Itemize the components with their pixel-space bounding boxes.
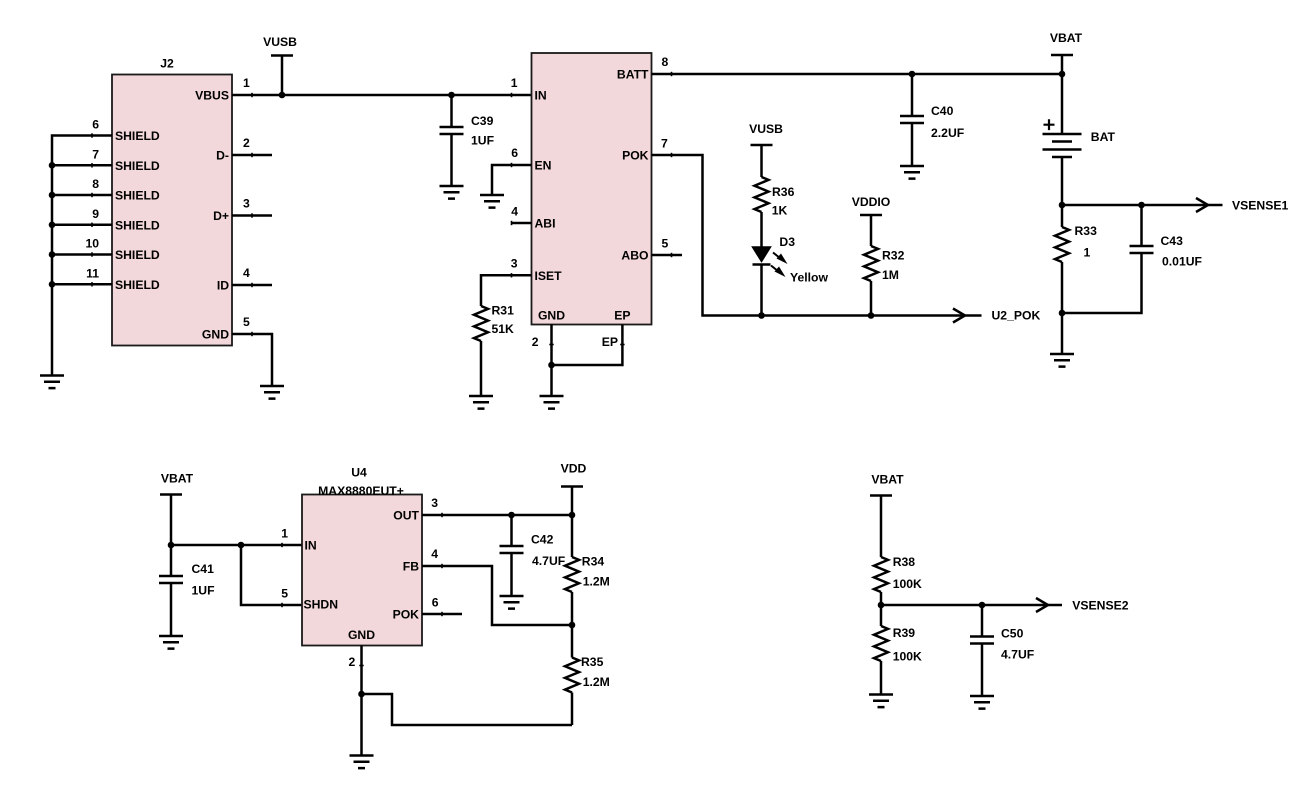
svg-text:BAT: BAT (1091, 130, 1116, 144)
svg-text:R38: R38 (893, 555, 916, 569)
svg-text:1: 1 (511, 76, 518, 90)
capacitor C43 (1062, 205, 1202, 313)
IC U2 body (532, 53, 652, 325)
svg-text:POK: POK (622, 149, 649, 163)
node FB divider junction (569, 622, 576, 629)
svg-text:VDDIO: VDDIO (852, 195, 891, 209)
svg-text:VDD: VDD (561, 462, 587, 476)
power VBAT at U4 (160, 472, 194, 577)
svg-text:10: 10 (85, 237, 99, 251)
pin 2 D- (216, 136, 272, 163)
svg-text:VSENSE1: VSENSE1 (1232, 198, 1288, 212)
pin 4 FB of U4 (403, 547, 439, 574)
svg-text:4.7UF: 4.7UF (1001, 648, 1034, 662)
wire to ground VSENSE1 (1061, 313, 1064, 354)
LED arrows (771, 253, 788, 278)
svg-text:VUSB: VUSB (263, 35, 297, 49)
svg-text:MAX8880EUT+: MAX8880EUT+ (318, 484, 404, 498)
ground at U4 GND (350, 756, 374, 769)
svg-text:D3: D3 (779, 235, 795, 249)
ground at C40 (900, 166, 924, 179)
pin 6 SHIELD (92, 118, 160, 144)
capacitor C41 (159, 562, 215, 636)
ground at EN (480, 195, 504, 208)
svg-text:U2_POK: U2_POK (992, 309, 1041, 323)
wire VBUS net (232, 94, 532, 97)
svg-text:C42: C42 (531, 533, 554, 547)
wire OUT to VDD (422, 514, 572, 517)
resistor R35 (565, 625, 610, 725)
svg-text:C40: C40 (931, 104, 954, 118)
svg-text:ID: ID (217, 279, 229, 293)
svg-text:VBAT: VBAT (161, 472, 194, 486)
svg-text:100K: 100K (893, 577, 922, 591)
pin 10 SHIELD (52, 237, 160, 263)
svg-text:R31: R31 (492, 304, 515, 318)
svg-text:1UF: 1UF (192, 584, 215, 598)
svg-text:4: 4 (511, 205, 518, 219)
svg-text:8: 8 (92, 177, 99, 191)
svg-text:IN: IN (305, 539, 317, 553)
svg-text:100K: 100K (893, 650, 922, 664)
power VUSB (263, 35, 297, 95)
pin 5 SHDN of U4 (281, 587, 338, 612)
svg-text:VSENSE2: VSENSE2 (1072, 599, 1128, 613)
wire shield bus (52, 136, 112, 376)
svg-text:2: 2 (243, 136, 250, 150)
pin 7 POK (622, 137, 668, 163)
resistor R36 (755, 177, 795, 247)
svg-text:R36: R36 (772, 185, 795, 199)
node R32 junction (868, 312, 875, 319)
svg-text:OUT: OUT (393, 509, 419, 523)
node VDD junction (569, 512, 576, 519)
pin 1 VBUS label (195, 76, 250, 103)
svg-text:C41: C41 (192, 562, 215, 576)
svg-text:VBAT: VBAT (871, 473, 904, 487)
svg-text:Yellow: Yellow (790, 270, 828, 284)
ground at C50 (970, 696, 994, 709)
wire SHDN branch (241, 545, 302, 605)
pin 4 ABI (511, 205, 555, 231)
svg-text:R32: R32 (882, 249, 905, 263)
svg-text:R34: R34 (582, 555, 605, 569)
resistor R38 (874, 555, 922, 605)
svg-text:C39: C39 (471, 114, 494, 128)
svg-text:4.7UF: 4.7UF (532, 554, 565, 568)
ground at R31 (469, 396, 493, 409)
wire VBAT to IN (171, 544, 302, 547)
ground at U2 GND (540, 396, 564, 409)
wire POK to U2_POK (652, 155, 982, 316)
svg-text:5: 5 (281, 587, 288, 601)
svg-text:8: 8 (662, 55, 669, 69)
power VUSB at R36 (749, 122, 783, 177)
svg-text:2: 2 (532, 335, 539, 349)
resistor R33 (1055, 205, 1097, 313)
svg-text:6: 6 (92, 118, 99, 132)
svg-text:BATT: BATT (617, 68, 649, 82)
svg-text:SHIELD: SHIELD (115, 278, 160, 292)
pin EP of U2 (552, 309, 631, 366)
capacitor C42 (500, 515, 566, 596)
connector J2 (112, 57, 232, 346)
wire VSENSE1 net (1062, 204, 1223, 207)
svg-text:1M: 1M (882, 268, 899, 282)
svg-text:D-: D- (216, 149, 229, 163)
svg-text:1.2M: 1.2M (583, 575, 610, 589)
svg-text:EN: EN (535, 159, 552, 173)
pin 1 IN (511, 76, 547, 103)
svg-text:5: 5 (662, 237, 669, 251)
svg-text:1UF: 1UF (471, 134, 494, 148)
wire BATT net (652, 73, 1063, 76)
svg-text:GND: GND (202, 328, 229, 342)
ground at C42 (500, 596, 524, 609)
node C42 junction (508, 512, 515, 519)
node VSENSE2 junction (878, 602, 885, 609)
svg-text:C50: C50 (1001, 627, 1024, 641)
arrow VSENSE2 (1036, 598, 1048, 612)
svg-text:SHIELD: SHIELD (115, 129, 160, 143)
svg-text:7: 7 (92, 147, 99, 161)
svg-text:ISET: ISET (535, 269, 563, 283)
svg-text:2: 2 (349, 655, 356, 669)
pin 5 ABO (621, 237, 682, 263)
pin 9 SHIELD (52, 207, 160, 233)
power VDDIO (852, 195, 891, 246)
resistor R31 (474, 304, 514, 397)
svg-text:J2: J2 (160, 57, 174, 71)
arrow VSENSE1 (1196, 198, 1208, 212)
svg-text:1: 1 (243, 76, 250, 90)
wire FB to divider (422, 566, 572, 625)
pin end ticks (92, 72, 672, 666)
svg-text:VBUS: VBUS (195, 89, 229, 103)
pin 5 GND (202, 315, 272, 386)
svg-text:VUSB: VUSB (749, 122, 783, 136)
node SHDN branch junction (238, 542, 245, 549)
power VBAT top (1050, 31, 1083, 77)
ground at R39 (869, 695, 893, 708)
node battery bottom junction (1059, 202, 1066, 209)
svg-text:SHDN: SHDN (304, 598, 339, 612)
svg-text:ABI: ABI (535, 217, 556, 231)
power VBAT at divider (870, 473, 904, 558)
svg-text:GND: GND (538, 309, 565, 323)
svg-text:2.2UF: 2.2UF (931, 126, 964, 140)
pin 11 SHIELD (52, 266, 160, 292)
ground at C41 (159, 636, 183, 649)
svg-text:1: 1 (1084, 246, 1091, 260)
svg-text:R35: R35 (581, 655, 604, 669)
svg-text:7: 7 (661, 137, 668, 151)
pin 8 SHIELD (52, 177, 160, 203)
svg-text:FB: FB (403, 560, 419, 574)
resistor R32 (864, 246, 905, 316)
svg-text:POK: POK (393, 608, 420, 622)
node C43 top junction (1138, 202, 1145, 209)
capacitor C39 (440, 92, 495, 186)
svg-text:1K: 1K (772, 204, 788, 218)
svg-text:GND: GND (348, 628, 375, 642)
pin 2 GND of U2 (532, 309, 566, 397)
pin 3 OUT of U4 (393, 496, 438, 523)
svg-text:6: 6 (511, 146, 518, 160)
svg-text:11: 11 (86, 266, 99, 280)
svg-text:SHIELD: SHIELD (115, 159, 160, 173)
svg-text:9: 9 (92, 207, 99, 221)
capacitor C40 (900, 71, 964, 166)
svg-text:SHIELD: SHIELD (115, 218, 160, 232)
svg-text:SHIELD: SHIELD (115, 189, 160, 203)
svg-text:3: 3 (431, 496, 438, 510)
svg-text:VBAT: VBAT (1050, 31, 1083, 45)
svg-text:3: 3 (511, 256, 518, 270)
pin 7 SHIELD (52, 147, 160, 173)
pin 6 POK of U4 (393, 596, 462, 622)
svg-text:4: 4 (243, 266, 250, 280)
node C50 junction (979, 602, 986, 609)
svg-text:0.01UF: 0.01UF (1162, 255, 1202, 269)
svg-text:R33: R33 (1075, 224, 1098, 238)
pin 6 EN (492, 146, 551, 195)
svg-text:EP: EP (602, 335, 618, 349)
pin 4 ID (217, 266, 272, 293)
LED D3 (753, 235, 796, 316)
IC U4 body (302, 466, 422, 646)
svg-text:ABO: ABO (621, 249, 648, 263)
pin 3 ISET (481, 256, 562, 306)
ground at R33 (1050, 354, 1074, 367)
pin 3 D+ (213, 197, 272, 224)
ground at C39 (440, 186, 464, 199)
svg-text:1: 1 (281, 527, 288, 541)
node shield junctions (49, 162, 56, 288)
pin 1 IN of U4 (281, 527, 316, 553)
ground shield bus (40, 376, 64, 389)
ground at J2 GND (260, 386, 284, 399)
svg-text:U4: U4 (351, 466, 367, 480)
svg-text:IN: IN (535, 89, 547, 103)
svg-text:C43: C43 (1161, 234, 1184, 248)
resistor R39 (874, 605, 922, 695)
resistor R34 (565, 515, 610, 625)
svg-text:EP: EP (614, 309, 630, 323)
svg-text:SHIELD: SHIELD (115, 248, 160, 262)
svg-text:R39: R39 (893, 626, 916, 640)
svg-text:D+: D+ (213, 209, 229, 223)
power VDD (561, 462, 587, 515)
node R33 bottom junction (1059, 310, 1066, 317)
svg-text:4: 4 (431, 547, 438, 561)
pin 2 GND of U4 (348, 628, 375, 756)
arrow U2_POK (953, 309, 965, 323)
svg-text:5: 5 (243, 315, 250, 329)
svg-text:1.2M: 1.2M (583, 675, 610, 689)
wire VSENSE2 net (881, 604, 1062, 607)
wire GND return from divider (362, 694, 573, 725)
battery BAT (1043, 74, 1116, 205)
pin 8 BATT (617, 55, 669, 82)
node VUSB junction (279, 92, 286, 99)
svg-text:51K: 51K (492, 322, 515, 336)
capacitor C50 (970, 605, 1034, 696)
svg-text:3: 3 (243, 197, 250, 211)
svg-text:6: 6 (432, 596, 439, 610)
node D3 junction (758, 312, 765, 319)
